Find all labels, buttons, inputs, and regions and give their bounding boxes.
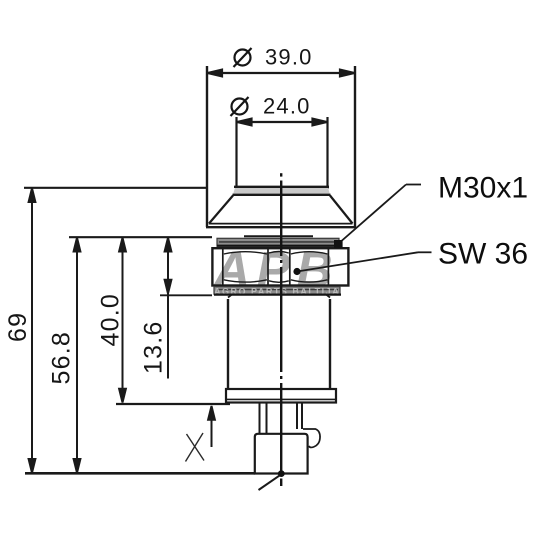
plunger right side / ext line for 24 dim [326, 117, 328, 189]
dimension line d24 [238, 119, 327, 126]
ext line bottom of flange (40 / X reference) [116, 403, 230, 405]
ext line top of washer (56.8/40/13.6 reference) [69, 236, 212, 238]
svg-text:24.0: 24.0 [263, 94, 311, 119]
bezel rim bottom edge [206, 226, 356, 228]
dimension line d39 [208, 70, 354, 77]
dimension 56.8 [74, 238, 81, 473]
svg-text:40.0: 40.0 [97, 293, 125, 346]
svg-text:M30x1: M30x1 [438, 172, 528, 205]
svg-text:69: 69 [4, 312, 32, 342]
leader SW 36 [293, 252, 431, 275]
leader M30x1 [334, 185, 421, 249]
diameter symbol for 24 [231, 97, 249, 116]
bezel shoulder left slope [209, 196, 233, 224]
hex nut SW36 [212, 248, 348, 285]
svg-text:56.8: 56.8 [48, 331, 76, 384]
terminal left [260, 403, 267, 434]
top lock washer [217, 238, 339, 246]
bottom flange [226, 389, 336, 403]
plunger bottom flange band [233, 187, 331, 195]
X dimension arrow [208, 406, 215, 447]
dimension 69 [29, 188, 36, 473]
bottom junction dot [278, 470, 285, 477]
switch body cylinder [228, 295, 330, 389]
dimension 40.0 [119, 238, 126, 403]
washer bottom edge line [214, 294, 341, 296]
bezel rim line [209, 223, 353, 225]
plunger left side / ext line for 24 dim [235, 117, 237, 189]
thread top line [244, 235, 313, 237]
bezel outer left side / ext line for 39 dim [206, 66, 208, 227]
svg-text:39.0: 39.0 [265, 45, 313, 70]
bottom lock washer [214, 287, 340, 295]
ext line top of bezel (69 dim reference) [24, 187, 207, 189]
bezel outer right side / ext line for 39 dim [354, 66, 356, 227]
baseline ext (69/56.8 reference) [25, 472, 255, 475]
ext line bottom of washer (13.6 reference) [160, 294, 212, 296]
dimension 13.6 [165, 238, 172, 379]
diameter symbol for 39 [234, 48, 252, 67]
bezel shoulder right slope [330, 196, 353, 224]
centerline [280, 173, 282, 486]
svg-text:13.6: 13.6 [140, 321, 168, 374]
X label [186, 433, 205, 462]
terminal right [297, 403, 302, 429]
svg-text:SW 36: SW 36 [438, 238, 528, 271]
bottom pointer leader [259, 474, 283, 490]
connector block [255, 434, 308, 474]
wire hook [303, 429, 320, 447]
